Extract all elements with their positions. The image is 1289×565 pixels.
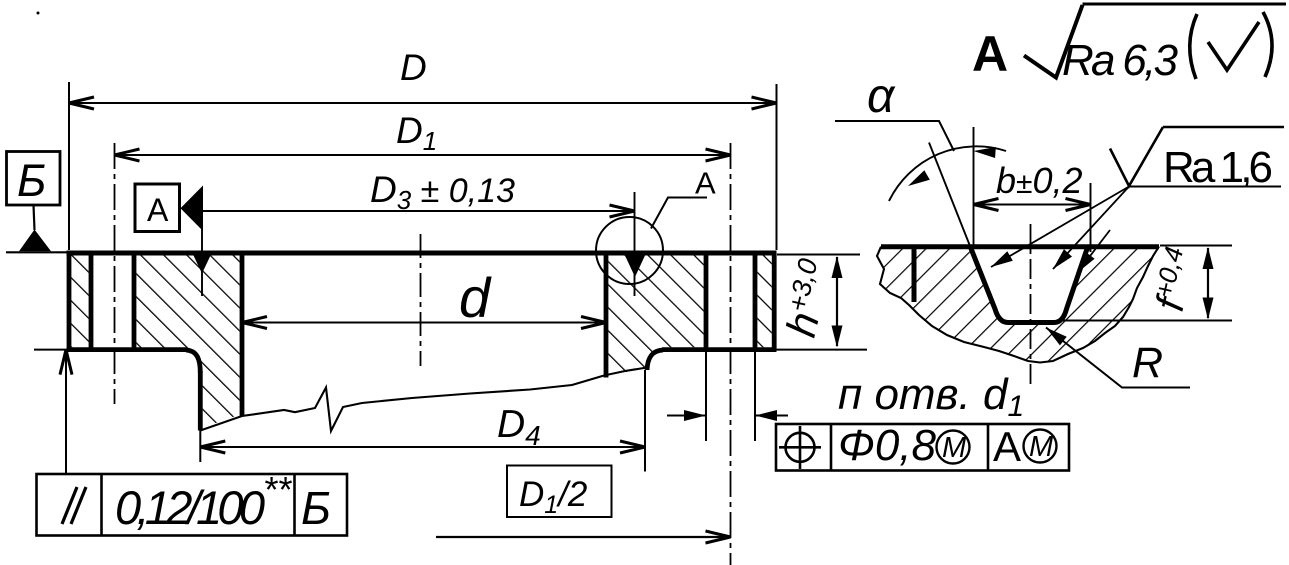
dimension D1/2	[436, 466, 731, 544]
angle alpha arc	[889, 146, 1006, 201]
left fillet	[186, 350, 200, 373]
svg-text:M: M	[1029, 431, 1054, 463]
vertical reference line	[973, 127, 975, 246]
detail hatch	[877, 247, 1159, 363]
title parentheses sign	[1190, 12, 1272, 79]
dimension D1	[115, 110, 731, 161]
groove profile	[970, 246, 1088, 323]
groove wall extension	[929, 143, 970, 247]
svg-text:Б: Б	[17, 155, 46, 206]
svg-text:b±0,2: b±0,2	[996, 160, 1083, 201]
groove centerline	[1030, 224, 1032, 386]
svg-text:M: M	[942, 432, 967, 464]
left hub edge	[198, 371, 203, 431]
center axis	[420, 234, 422, 366]
left bolt centerline	[114, 143, 116, 404]
parallelism tolerance frame	[37, 469, 348, 536]
hatch right body	[608, 255, 703, 375]
flange bottom right	[662, 347, 776, 352]
Ra leaders to groove walls	[988, 187, 1129, 277]
bore left edge	[240, 251, 245, 417]
svg-text:A: A	[695, 166, 716, 201]
hatch left body and hub	[136, 255, 239, 427]
leader to letter A	[651, 166, 716, 229]
right bolt hole left wall	[704, 251, 709, 352]
detail left edge	[912, 247, 917, 302]
position tolerance frame	[776, 421, 1069, 471]
svg-text:**: **	[263, 469, 292, 510]
svg-text:Б: Б	[301, 482, 331, 534]
left bolt hole left wall	[89, 251, 94, 352]
flange left outer edge	[67, 253, 72, 352]
hatch right outer strip	[757, 255, 772, 347]
svg-text:D: D	[400, 47, 427, 88]
groove V notch right	[625, 192, 645, 296]
detail top surface	[881, 244, 1159, 249]
break line	[200, 368, 647, 432]
detail break outline	[877, 247, 1159, 363]
left bolt hole right wall	[132, 251, 137, 352]
right fillet	[647, 350, 663, 370]
alpha leader	[835, 121, 954, 151]
dimension f	[1063, 244, 1232, 321]
datum triangle at D3	[181, 186, 204, 232]
hatch left outer strip	[71, 255, 89, 347]
bore right edge	[604, 251, 609, 378]
datum frame B	[7, 152, 61, 252]
dimension D4	[200, 370, 645, 472]
right bolt centerline	[730, 143, 732, 565]
dimension h	[776, 255, 867, 350]
svg-text:R: R	[1132, 339, 1163, 387]
parallelism leader	[60, 350, 72, 474]
flange top surface	[6, 251, 777, 254]
detail circle A	[596, 217, 663, 284]
radius R leader	[1043, 323, 1190, 387]
svg-text:Ra 1,6: Ra 1,6	[1163, 143, 1273, 192]
dimension D	[69, 47, 777, 250]
bottom surface extension left	[34, 349, 67, 351]
datum frame A	[135, 184, 180, 232]
svg-text:Φ0,8: Φ0,8	[838, 421, 937, 470]
svg-text:α: α	[867, 70, 896, 123]
dimension n holes d1	[667, 352, 1024, 441]
right bolt hole right wall	[753, 251, 758, 352]
title roughness sign	[1024, 4, 1286, 85]
flange bottom left	[67, 347, 187, 352]
dimension d	[242, 266, 606, 329]
svg-text:A: A	[972, 26, 1008, 82]
svg-text:A: A	[147, 192, 169, 228]
dimension D3	[203, 169, 635, 217]
flange right outer edge	[772, 253, 777, 352]
svg-text:п отв. d1: п отв. d1	[838, 370, 1024, 423]
svg-text:Ra 6,3: Ra 6,3	[1062, 36, 1179, 85]
svg-text:0,12/100: 0,12/100	[115, 481, 265, 534]
groove V notch left	[194, 188, 211, 296]
svg-text:A: A	[993, 423, 1021, 470]
dimension b	[974, 160, 1091, 252]
svg-text:d: d	[459, 266, 492, 329]
roughness Ra 1,6	[1110, 127, 1284, 192]
svg-text:D3 ± 0,13: D3 ± 0,13	[370, 169, 515, 215]
